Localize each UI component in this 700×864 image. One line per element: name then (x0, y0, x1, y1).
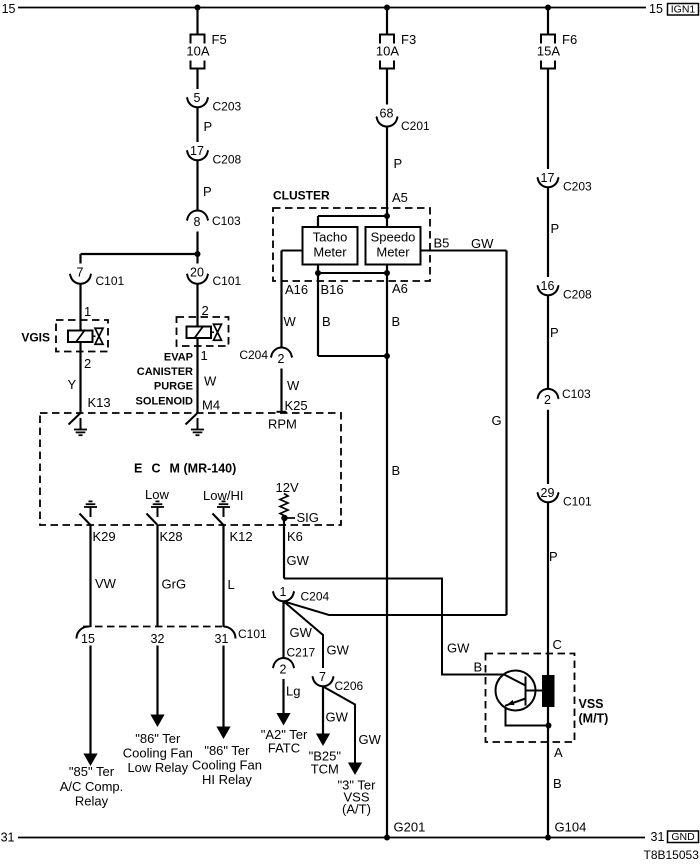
svg-text:31: 31 (215, 632, 229, 646)
svg-text:Speedo: Speedo (371, 230, 416, 245)
svg-text:(MR-140): (MR-140) (184, 462, 237, 476)
svg-text:GW: GW (471, 236, 494, 251)
svg-text:29: 29 (541, 486, 555, 500)
svg-text:K29: K29 (93, 529, 116, 544)
svg-text:C101: C101 (238, 627, 267, 641)
svg-text:A: A (554, 745, 563, 760)
svg-text:Cooling Fan: Cooling Fan (192, 758, 262, 773)
svg-text:15A: 15A (537, 44, 560, 59)
svg-text:B16: B16 (321, 282, 344, 297)
svg-text:K12: K12 (230, 529, 253, 544)
svg-text:P: P (204, 119, 213, 134)
svg-text:TCM: TCM (311, 762, 339, 777)
svg-text:1: 1 (84, 304, 91, 319)
svg-text:GW: GW (359, 732, 382, 747)
svg-text:Lg: Lg (286, 684, 300, 699)
svg-text:C208: C208 (213, 153, 242, 167)
svg-text:"86" Ter: "86" Ter (135, 731, 181, 746)
svg-text:Tacho: Tacho (313, 230, 348, 245)
svg-text:C204: C204 (301, 590, 330, 604)
svg-text:C103: C103 (562, 387, 591, 401)
svg-text:C203: C203 (213, 100, 242, 114)
svg-text:L: L (228, 577, 235, 592)
svg-text:A6: A6 (392, 281, 408, 296)
svg-text:C103: C103 (212, 214, 241, 228)
svg-text:M: M (170, 462, 180, 476)
svg-text:C204: C204 (239, 348, 268, 362)
svg-text:7: 7 (319, 670, 326, 684)
svg-text:VGIS: VGIS (21, 331, 50, 345)
svg-text:2: 2 (280, 662, 287, 676)
svg-text:K6: K6 (287, 529, 303, 544)
svg-text:GW: GW (287, 553, 310, 568)
svg-text:(M/T): (M/T) (579, 712, 609, 726)
svg-text:GW: GW (326, 710, 349, 725)
svg-text:F3: F3 (401, 32, 416, 47)
svg-text:1: 1 (201, 348, 208, 363)
svg-text:C: C (553, 637, 562, 652)
svg-text:Low Relay: Low Relay (127, 760, 188, 775)
svg-text:CLUSTER: CLUSTER (273, 189, 330, 203)
svg-text:SIG: SIG (297, 510, 319, 525)
svg-text:P: P (549, 549, 558, 564)
svg-text:EVAP: EVAP (164, 352, 193, 364)
svg-text:C206: C206 (335, 679, 364, 693)
svg-text:P: P (550, 325, 559, 340)
svg-text:W: W (287, 378, 300, 393)
svg-text:10A: 10A (376, 44, 399, 59)
svg-text:K13: K13 (88, 395, 111, 410)
svg-text:C208: C208 (563, 288, 592, 302)
svg-text:F5: F5 (212, 32, 227, 47)
svg-text:E: E (134, 462, 142, 476)
svg-text:(A/T): (A/T) (342, 802, 371, 817)
svg-text:K28: K28 (160, 529, 183, 544)
svg-text:C101: C101 (563, 495, 592, 509)
svg-text:G201: G201 (394, 820, 426, 835)
svg-text:15: 15 (81, 632, 95, 646)
svg-text:10A: 10A (186, 44, 209, 59)
svg-text:P: P (394, 156, 403, 171)
svg-text:"85" Ter: "85" Ter (69, 764, 115, 779)
svg-text:P: P (551, 221, 560, 236)
svg-text:C203: C203 (563, 180, 592, 194)
svg-text:PURGE: PURGE (154, 381, 193, 393)
svg-text:1: 1 (280, 585, 287, 599)
svg-text:B: B (392, 314, 401, 329)
svg-text:Y: Y (68, 377, 77, 392)
svg-text:FATC: FATC (268, 741, 300, 756)
svg-text:C101: C101 (213, 274, 242, 288)
svg-text:32: 32 (151, 632, 165, 646)
svg-text:B: B (553, 776, 562, 791)
svg-text:Cooling Fan: Cooling Fan (123, 746, 193, 761)
svg-text:HI Relay: HI Relay (202, 772, 252, 787)
svg-text:W: W (204, 374, 217, 389)
svg-text:G: G (492, 413, 502, 428)
svg-text:12V: 12V (276, 480, 299, 495)
svg-text:IGN1: IGN1 (671, 4, 696, 16)
svg-text:C101: C101 (96, 274, 125, 288)
svg-text:M4: M4 (202, 398, 220, 413)
svg-text:B: B (474, 660, 483, 675)
svg-text:T8B15053: T8B15053 (644, 848, 700, 862)
svg-text:A16: A16 (285, 282, 308, 297)
svg-text:P: P (203, 184, 212, 199)
svg-text:K25: K25 (285, 398, 308, 413)
svg-text:31: 31 (1, 831, 15, 845)
svg-text:31: 31 (651, 830, 665, 844)
svg-text:7: 7 (77, 266, 84, 280)
svg-text:RPM: RPM (268, 417, 297, 432)
svg-text:VW: VW (95, 576, 117, 591)
svg-text:17: 17 (190, 144, 204, 158)
svg-text:2: 2 (278, 352, 285, 366)
svg-text:5: 5 (194, 91, 201, 105)
svg-text:C201: C201 (401, 119, 430, 133)
svg-text:2: 2 (544, 393, 551, 407)
svg-text:GrG: GrG (162, 577, 187, 592)
svg-text:Low: Low (145, 487, 169, 502)
svg-text:20: 20 (190, 266, 204, 280)
svg-text:2: 2 (84, 356, 91, 371)
svg-text:B: B (322, 314, 331, 329)
svg-text:2: 2 (202, 303, 209, 318)
svg-text:C217: C217 (287, 646, 316, 660)
svg-text:A5: A5 (392, 190, 408, 205)
svg-text:Low/HI: Low/HI (203, 488, 243, 503)
svg-text:W: W (284, 314, 297, 329)
svg-text:A/C Comp.: A/C Comp. (60, 779, 124, 794)
svg-text:B: B (392, 463, 401, 478)
svg-text:B5: B5 (434, 236, 450, 251)
svg-text:SOLENOID: SOLENOID (136, 396, 194, 408)
svg-text:GND: GND (671, 831, 695, 843)
svg-text:G104: G104 (555, 820, 587, 835)
svg-text:16: 16 (541, 279, 555, 293)
svg-text:C: C (152, 462, 161, 476)
svg-text:Meter: Meter (313, 245, 347, 260)
svg-text:"86" Ter: "86" Ter (204, 743, 250, 758)
svg-text:17: 17 (541, 171, 555, 185)
svg-text:GW: GW (327, 643, 350, 658)
svg-text:CANISTER: CANISTER (137, 366, 193, 378)
svg-text:GW: GW (290, 625, 313, 640)
svg-text:15: 15 (2, 2, 16, 16)
svg-text:68: 68 (380, 107, 394, 121)
svg-text:Meter: Meter (376, 245, 410, 260)
svg-text:VSS: VSS (579, 697, 604, 711)
svg-text:15: 15 (649, 2, 663, 16)
svg-text:8: 8 (194, 215, 201, 229)
svg-text:Relay: Relay (75, 794, 109, 809)
svg-text:GW: GW (447, 641, 470, 656)
svg-text:F6: F6 (562, 32, 577, 47)
